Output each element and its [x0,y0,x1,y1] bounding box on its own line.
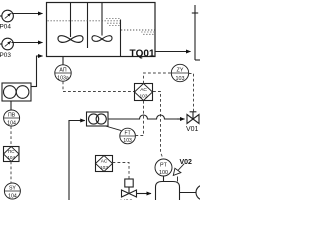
svg-text:100: 100 [159,170,168,176]
pump P04 [2,10,14,22]
wire suction riser [69,121,83,201]
valve V01 [187,112,199,124]
svg-text:103а: 103а [57,76,69,82]
wire tank outlet to riser [155,51,191,53]
wire tank bottom feed arrow [31,56,41,87]
svg-text:103: 103 [176,76,185,82]
tank internal divider [120,20,122,57]
wire GP2 to FT tap [106,126,122,131]
dosing pump DP1 [2,83,31,101]
svg-text:TQ01: TQ01 [130,49,155,60]
wire vessel outlet right [180,192,197,194]
instrument ZY 103 [171,64,188,82]
wire V03 to vessel [137,193,152,195]
signal АС to valve V03 [113,163,130,179]
svg-text:FT: FT [125,131,131,137]
svg-text:V01: V01 [186,126,199,133]
svg-text:PT: PT [160,162,168,168]
valve V03 actuator [125,179,133,187]
wire tank to AP instrument [62,57,64,65]
agitator 2 shaft [101,3,103,36]
tank TQ01 [47,3,156,57]
signal АС to ZY [144,73,172,84]
svg-text:ПС: ПС [8,149,15,154]
signal ZY to valve V01 [189,74,194,112]
pump P03 [2,38,14,50]
wire P03 to tank [12,42,43,44]
liquid level right [121,29,155,31]
pump P05 partial [196,185,211,200]
svg-text:103: 103 [123,138,132,144]
wire vent stub [177,177,179,182]
signal ПС down [10,162,12,183]
wire discharge pipe with hops [108,115,180,119]
wire P03 suction stub [0,43,2,45]
agitator 1 shaft [70,3,72,38]
svg-text:V02: V02 [180,159,193,166]
valve V03 [122,187,137,197]
svg-text:ZY: ZY [177,68,184,74]
wire riser vertical [194,5,196,60]
instrument PT 100 [155,159,172,176]
svg-text:103: 103 [100,165,108,171]
wire P04 suction stub [0,15,2,17]
pump GP2 [87,112,109,126]
wire riser exit right [195,59,200,61]
vessel [156,182,180,201]
instrument FT 103 [120,128,136,144]
svg-text:104: 104 [8,193,17,199]
signal АС square to PT drop [153,92,163,159]
liquid level left [48,20,121,22]
signal FT to АС square [135,101,143,136]
agitator 1 impeller [58,36,83,43]
svg-text:АП: АП [59,68,66,74]
svg-text:P04: P04 [0,24,11,31]
wire DP1 to tank feed [31,86,37,88]
svg-text:АС: АС [101,159,108,165]
function block АС 103 [135,84,153,101]
signal АП to АС square [63,82,134,92]
svg-text:P03: P03 [0,52,11,59]
svg-text:ПВ: ПВ [8,113,16,119]
function block ПС 104 [4,147,20,162]
surface hatch right [141,32,154,34]
vent valve V02 [173,164,184,176]
wire P04 to tank [12,13,43,15]
instrument SY 104 [4,183,20,199]
instrument ПВ 104 [4,110,20,126]
function block АС 103b [96,156,113,172]
svg-text:103: 103 [139,93,147,99]
continuation tick [192,12,198,14]
agitator 2 impeller [92,36,112,42]
signal ПВ down [10,126,12,146]
svg-text:V03: V03 [121,200,134,201]
wire PT to vessel [163,176,165,182]
tank internal baffle [87,3,89,49]
svg-text:SY: SY [9,186,16,192]
svg-text:104: 104 [7,120,16,126]
svg-text:АС: АС [140,87,147,93]
surface hatch left [106,19,120,26]
wire DP1 down to ПВ [10,101,12,110]
svg-text:104: 104 [7,155,15,160]
instrument АП 103а [55,65,71,82]
